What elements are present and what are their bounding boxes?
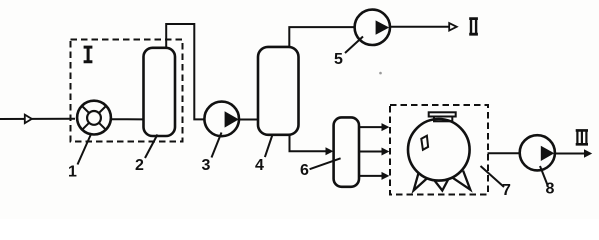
svg-text:8: 8	[546, 180, 555, 197]
svg-text:2: 2	[135, 157, 144, 174]
wire column4 bottom to vessel6	[290, 135, 328, 152]
dashed box I	[71, 40, 183, 142]
open arrowhead II	[449, 23, 457, 30]
svg-text:5: 5	[334, 51, 343, 68]
dashed box 7	[390, 105, 488, 195]
leader line 4	[265, 134, 273, 157]
leader line 8	[540, 166, 548, 185]
filled arrowhead into vessel 6	[326, 147, 334, 155]
column 2	[144, 48, 176, 136]
svg-text:3: 3	[202, 157, 211, 174]
arrow vessel6 to box7 middle	[359, 151, 383, 153]
wire pump3 to column4	[239, 119, 258, 121]
svg-text:1: 1	[68, 164, 77, 181]
label III	[576, 129, 588, 146]
wire column4 overhead to pump5	[289, 27, 354, 47]
leader line 3	[212, 133, 222, 158]
arrow vessel6 to box7 bottom	[359, 175, 383, 177]
scan dot	[379, 72, 382, 75]
wire pump1 to column2	[111, 118, 144, 120]
tank top neck	[434, 116, 452, 122]
leader line 5	[345, 37, 363, 54]
tank top flange	[429, 112, 456, 116]
svg-text:4: 4	[255, 157, 264, 174]
rotary pump 1	[77, 101, 111, 135]
leader line 6	[310, 158, 341, 169]
wire column2 overhead pipe to pump3	[166, 24, 205, 119]
wire pump8 outlet to III	[555, 153, 585, 155]
pump 8	[520, 135, 555, 170]
wire pump5 outlet to II	[390, 26, 450, 28]
pump 5	[355, 10, 390, 45]
leader line 2	[145, 135, 158, 159]
label I	[84, 46, 93, 64]
input flow open arrowhead	[25, 115, 32, 123]
filled arrowhead III	[584, 149, 592, 157]
svg-text:6: 6	[300, 162, 309, 179]
label II	[469, 17, 478, 35]
arrow vessel6 to box7 top	[359, 126, 383, 128]
column 4	[258, 47, 299, 135]
sphere tank legs	[414, 171, 431, 191]
wire box7 to pump8	[488, 152, 520, 154]
svg-text:7: 7	[502, 182, 511, 199]
tank manway	[421, 136, 428, 150]
sphere tank 7	[408, 119, 470, 181]
leader line 7	[481, 166, 505, 187]
leader line 1	[78, 133, 92, 165]
pump 3	[204, 102, 239, 137]
wire feed input	[0, 118, 75, 120]
vessel 6	[334, 117, 359, 186]
